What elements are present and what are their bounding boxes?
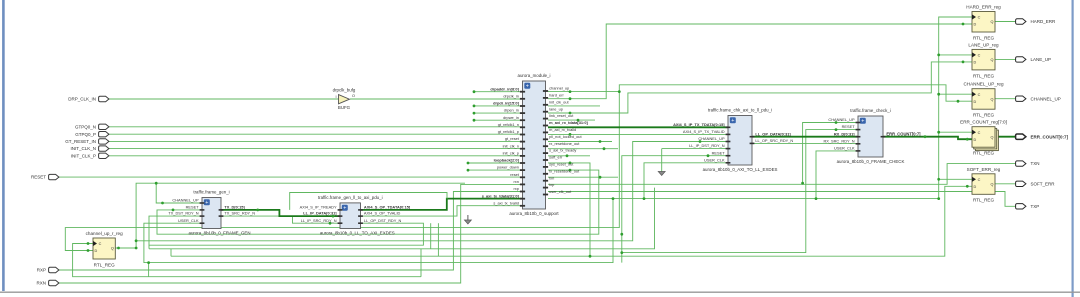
- svg-text:RX_D[0:31]: RX_D[0:31]: [834, 131, 855, 136]
- svg-text:GTPQ0_N: GTPQ0_N: [75, 124, 96, 129]
- svg-text:init_clk_out: init_clk_out: [549, 99, 569, 104]
- svg-text:drpclk_in: drpclk_in: [503, 93, 519, 98]
- svg-text:RTL_REG: RTL_REG: [973, 35, 995, 40]
- svg-text:+: +: [205, 200, 208, 206]
- svg-text:AXI4_S_IP_TX_TVALID: AXI4_S_IP_TX_TVALID: [683, 129, 725, 134]
- svg-text:aurora_module_i: aurora_module_i: [518, 73, 551, 78]
- svg-text:LANE_UP: LANE_UP: [1031, 57, 1052, 62]
- svg-text:I: I: [335, 95, 336, 99]
- svg-text:loopback[2:0]: loopback[2:0]: [494, 158, 520, 163]
- svg-text:O: O: [352, 94, 355, 98]
- svg-text:gt_refclk1_p: gt_refclk1_p: [498, 129, 519, 134]
- svg-text:traffic.frame_gen_ll_to_axi_pd: traffic.frame_gen_ll_to_axi_pdu_i: [318, 195, 383, 200]
- svg-text:gt_reset: gt_reset: [505, 136, 520, 141]
- svg-text:CHANNEL_UP: CHANNEL_UP: [828, 117, 855, 122]
- svg-text:drpclk_bufg: drpclk_bufg: [333, 87, 356, 92]
- svg-text:CHANNEL_UP: CHANNEL_UP: [698, 136, 725, 141]
- svg-text:LL_IP_DST_RDY_N: LL_IP_DST_RDY_N: [689, 143, 725, 148]
- svg-text:m_axi_rx_tdata[31:0]: m_axi_rx_tdata[31:0]: [549, 120, 588, 125]
- svg-text:C: C: [978, 178, 981, 182]
- svg-text:sys_reset_out: sys_reset_out: [549, 162, 574, 167]
- svg-text:user_clk_out: user_clk_out: [549, 189, 572, 194]
- svg-text:aurora_8b10b_0_FRAME_CHECK: aurora_8b10b_0_FRAME_CHECK: [837, 159, 905, 164]
- svg-text:lane_up: lane_up: [549, 106, 563, 111]
- svg-text:C: C: [978, 16, 981, 20]
- svg-text:LANE_UP_reg: LANE_UP_reg: [968, 42, 999, 47]
- svg-text:TXP: TXP: [1031, 204, 1040, 209]
- svg-text:rxn: rxn: [513, 179, 518, 184]
- svg-text:C: C: [99, 242, 102, 246]
- svg-text:SOFT_ERR: SOFT_ERR: [1031, 181, 1056, 186]
- svg-text:channel_up: channel_up: [549, 86, 569, 91]
- svg-text:RXN: RXN: [36, 281, 46, 286]
- svg-text:s_axi_tx_tdata[31:0]: s_axi_tx_tdata[31:0]: [482, 193, 520, 198]
- svg-text:BUFG: BUFG: [338, 105, 351, 110]
- svg-text:D: D: [974, 185, 977, 189]
- svg-text:RESET: RESET: [31, 175, 46, 180]
- svg-text:CHANNEL_UP_reg: CHANNEL_UP_reg: [963, 82, 1004, 87]
- svg-text:LL_OP_DST_RDY_N: LL_OP_DST_RDY_N: [364, 218, 402, 223]
- svg-text:Q: Q: [991, 58, 994, 62]
- svg-text:SOFT_ERR_reg: SOFT_ERR_reg: [967, 167, 1001, 172]
- svg-text:Q: Q: [991, 97, 994, 101]
- svg-text:HARD_ERR_reg: HARD_ERR_reg: [966, 5, 1001, 10]
- svg-text:RTL_REG: RTL_REG: [973, 198, 995, 203]
- svg-text:USER_CLK: USER_CLK: [704, 157, 725, 162]
- svg-text:power_down: power_down: [497, 165, 519, 170]
- svg-text:gt_refclk1_n: gt_refclk1_n: [498, 122, 519, 127]
- svg-text:TX_D[0:15]: TX_D[0:15]: [224, 205, 245, 210]
- svg-text:D: D: [974, 138, 977, 142]
- svg-text:RTL_REG: RTL_REG: [94, 262, 116, 267]
- svg-text:rxp: rxp: [513, 186, 518, 191]
- svg-text:D: D: [95, 249, 98, 253]
- svg-text:INIT_CLK_N: INIT_CLK_N: [70, 146, 96, 151]
- svg-text:TX_SRC_RDY_N: TX_SRC_RDY_N: [224, 211, 255, 216]
- svg-text:C: C: [978, 93, 981, 97]
- svg-text:drpwe_in: drpwe_in: [503, 115, 519, 120]
- svg-text:CHANNEL_UP: CHANNEL_UP: [172, 198, 199, 203]
- svg-text:init_clk_n: init_clk_n: [503, 143, 519, 148]
- svg-text:TXN: TXN: [1031, 161, 1040, 166]
- svg-text:aurora_8b10b_0_support: aurora_8b10b_0_support: [509, 211, 559, 216]
- svg-text:Q: Q: [111, 247, 114, 251]
- svg-text:aurora_8b10b_0_AXI_TO_LL_EXDES: aurora_8b10b_0_AXI_TO_LL_EXDES: [703, 167, 778, 172]
- svg-text:AXI4_S_IP_TX_TDATA[0:15]: AXI4_S_IP_TX_TDATA[0:15]: [673, 122, 725, 127]
- svg-text:DRP_CLK_IN: DRP_CLK_IN: [68, 97, 96, 102]
- svg-text:INIT_CLK_P: INIT_CLK_P: [71, 153, 96, 158]
- svg-text:HARD_ERR: HARD_ERR: [1031, 19, 1057, 24]
- svg-text:Q: Q: [991, 135, 994, 139]
- svg-text:D: D: [974, 61, 977, 65]
- svg-text:D: D: [974, 23, 977, 27]
- svg-text:RESET: RESET: [186, 205, 200, 210]
- svg-text:link_reset_out: link_reset_out: [549, 113, 574, 118]
- svg-text:RTL_REG: RTL_REG: [973, 151, 995, 156]
- svg-text:traffic.frame_gen_i: traffic.frame_gen_i: [193, 190, 229, 195]
- svg-text:GT_RESET_IN: GT_RESET_IN: [65, 139, 96, 144]
- svg-text:drpen_in: drpen_in: [504, 108, 519, 113]
- svg-text:C: C: [978, 131, 981, 135]
- svg-text:s_axi_tx_tvalid: s_axi_tx_tvalid: [493, 200, 519, 205]
- svg-text:GTPQ0_P: GTPQ0_P: [75, 132, 96, 137]
- svg-text:LL_IP_SRC_RDY_N: LL_IP_SRC_RDY_N: [301, 218, 337, 223]
- svg-text:RESET: RESET: [712, 150, 726, 155]
- svg-text:D: D: [974, 100, 977, 104]
- svg-text:LL_IP_DATA[0:31]: LL_IP_DATA[0:31]: [303, 211, 337, 216]
- svg-text:RX_SRC_RDY_N: RX_SRC_RDY_N: [823, 138, 854, 143]
- svg-text:ERR_COUNT_reg[7:0]: ERR_COUNT_reg[7:0]: [960, 120, 1007, 125]
- svg-text:C: C: [978, 54, 981, 58]
- svg-text:AXI4_S_IP_TREADY: AXI4_S_IP_TREADY: [300, 205, 337, 210]
- svg-text:rx_resetdone_out: rx_resetdone_out: [549, 141, 580, 146]
- svg-text:txn: txn: [549, 175, 554, 180]
- svg-text:RTL_REG: RTL_REG: [973, 113, 995, 118]
- svg-text:hard_err: hard_err: [549, 93, 564, 98]
- svg-text:+: +: [526, 84, 529, 90]
- svg-text:+: +: [731, 118, 734, 124]
- svg-text:aurora_8b10b_0_FRAME_GEN: aurora_8b10b_0_FRAME_GEN: [189, 231, 251, 236]
- svg-text:ERR_COUNT[0:7]: ERR_COUNT[0:7]: [1031, 134, 1069, 139]
- svg-text:Q: Q: [991, 20, 994, 24]
- svg-text:traffic.frame_chk_axi_to_ll_pd: traffic.frame_chk_axi_to_ll_pdu_i: [708, 108, 772, 113]
- svg-text:traffic.frame_check_i: traffic.frame_check_i: [850, 108, 890, 113]
- svg-text:AXI4_S_OP_TDATA[0:15]: AXI4_S_OP_TDATA[0:15]: [364, 205, 411, 210]
- svg-text:tx_resetdone_out: tx_resetdone_out: [549, 168, 580, 173]
- svg-text:pll_not_locked_out: pll_not_locked_out: [549, 134, 582, 139]
- svg-text:LL_OP_DATA[0:31]: LL_OP_DATA[0:31]: [755, 131, 791, 136]
- svg-text:RXP: RXP: [37, 268, 46, 273]
- svg-text:drpaddr_in[8:0]: drpaddr_in[8:0]: [490, 86, 519, 91]
- svg-text:ERR_COUNT[0:7]: ERR_COUNT[0:7]: [886, 131, 921, 136]
- svg-text:CHANNEL_UP: CHANNEL_UP: [1031, 96, 1061, 101]
- svg-text:+: +: [343, 206, 346, 212]
- svg-text:USER_CLK: USER_CLK: [178, 218, 199, 223]
- svg-text:Q: Q: [991, 183, 994, 187]
- svg-text:RTL_REG: RTL_REG: [973, 73, 995, 78]
- svg-text:TX_DST_RDY_N: TX_DST_RDY_N: [168, 211, 198, 216]
- svg-text:txp: txp: [549, 182, 554, 187]
- svg-text:m_axi_rx_tvalid: m_axi_rx_tvalid: [549, 127, 576, 132]
- svg-text:drpdi_in[15:0]: drpdi_in[15:0]: [493, 101, 519, 106]
- svg-text:soft_err: soft_err: [549, 155, 563, 160]
- svg-text:aurora_8b10b_0_LL_TO_AXI_EXDES: aurora_8b10b_0_LL_TO_AXI_EXDES: [320, 231, 395, 236]
- svg-text:AXI4_S_OP_TVALID: AXI4_S_OP_TVALID: [364, 211, 401, 216]
- svg-text:LL_OP_SRC_RDY_N: LL_OP_SRC_RDY_N: [755, 138, 793, 143]
- svg-text:+: +: [861, 119, 864, 125]
- svg-text:s_axi_tx_tready: s_axi_tx_tready: [549, 148, 576, 153]
- svg-text:reset: reset: [510, 172, 520, 177]
- svg-text:init_clk_p: init_clk_p: [503, 151, 519, 156]
- svg-text:RESET: RESET: [842, 124, 856, 129]
- svg-text:channel_up_r_reg: channel_up_r_reg: [86, 231, 123, 236]
- svg-text:USER_CLK: USER_CLK: [834, 146, 855, 151]
